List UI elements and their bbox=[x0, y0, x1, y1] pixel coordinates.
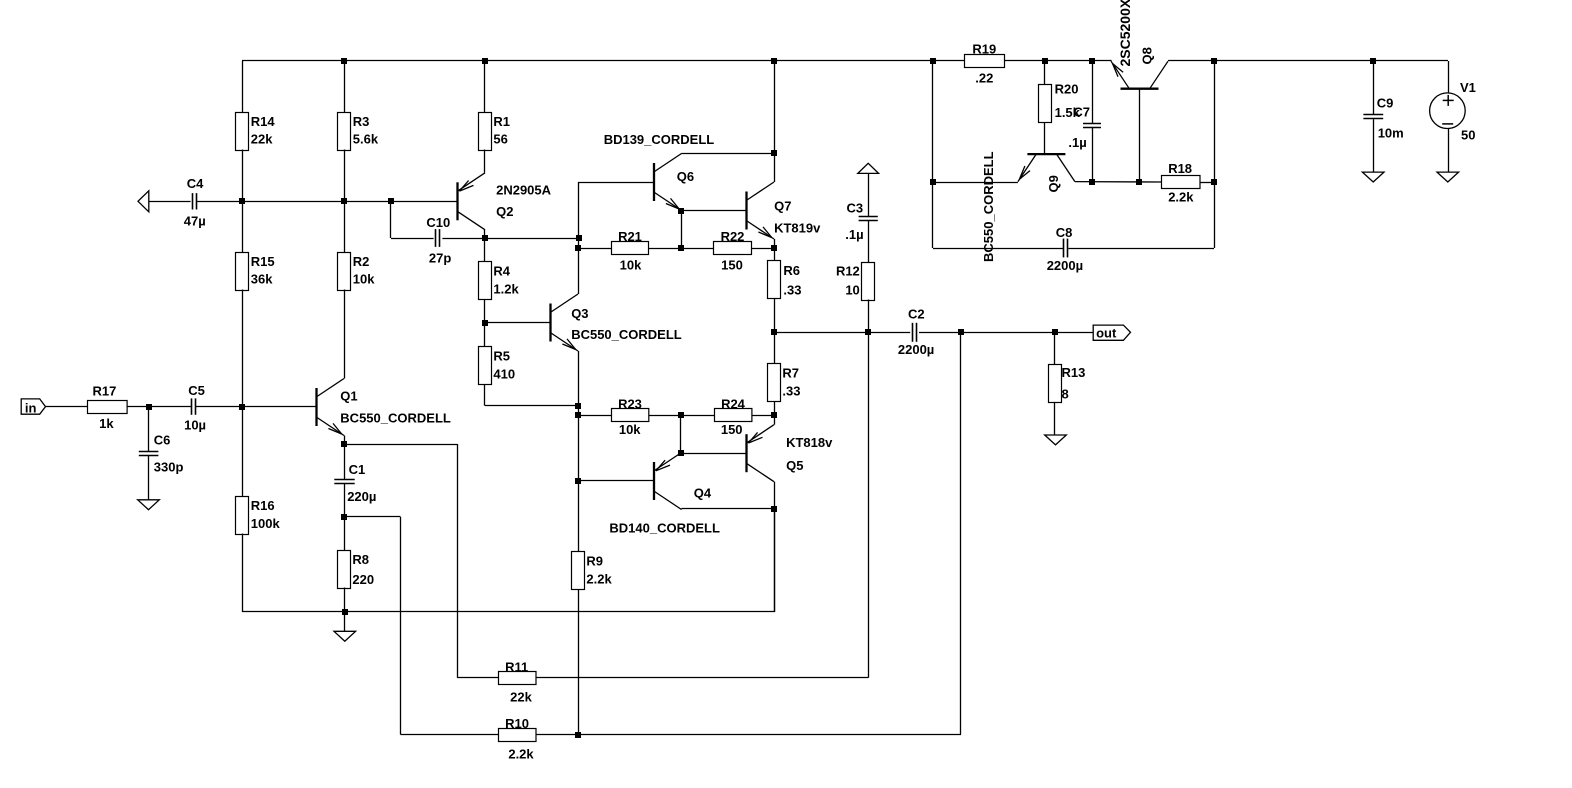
svg-text:C9: C9 bbox=[1377, 96, 1394, 111]
svg-text:in: in bbox=[25, 400, 37, 415]
transistor Q8 bbox=[1111, 61, 1168, 88]
resistor R6 bbox=[768, 261, 781, 299]
wire R13 to ground bbox=[1054, 402, 1056, 435]
port flag in bbox=[21, 399, 45, 414]
svg-text:R12: R12 bbox=[836, 263, 860, 278]
svg-text:R24: R24 bbox=[721, 397, 746, 412]
svg-text:out: out bbox=[1096, 326, 1117, 341]
wire Q5 base bbox=[681, 453, 747, 455]
svg-text:50: 50 bbox=[1461, 128, 1475, 143]
ground flag at C4 bbox=[138, 191, 149, 212]
svg-text:C4: C4 bbox=[187, 176, 204, 191]
resistor R14 bbox=[242, 61, 244, 112]
node R3/R2 junction bbox=[341, 198, 347, 204]
wire C1 to R8 bbox=[344, 484, 346, 517]
svg-text:Q2: Q2 bbox=[496, 204, 513, 219]
node R21/R22 junction bbox=[678, 245, 684, 251]
svg-text:R22: R22 bbox=[721, 229, 745, 244]
svg-text:.22: .22 bbox=[975, 71, 993, 86]
node C7 bottom junction bbox=[1089, 179, 1095, 185]
capacitor C4 bbox=[149, 201, 191, 203]
svg-text:10k: 10k bbox=[620, 258, 642, 273]
transistor Q4 bbox=[654, 453, 682, 510]
svg-text:10k: 10k bbox=[619, 422, 641, 437]
transistor Q3 bbox=[551, 294, 579, 351]
wire R8 to ground row bbox=[344, 588, 346, 612]
resistor R12 bbox=[862, 263, 875, 301]
svg-text:Q6: Q6 bbox=[677, 169, 694, 184]
resistor R9 bbox=[572, 552, 585, 590]
ground symbol below C9 bbox=[1362, 172, 1384, 182]
svg-text:2N2905A: 2N2905A bbox=[496, 182, 552, 197]
svg-text:2.2k: 2.2k bbox=[1168, 189, 1194, 204]
wire R17 to C6 node bbox=[127, 406, 148, 408]
svg-text:Q4: Q4 bbox=[694, 485, 712, 500]
node rail junction at C9 bbox=[1370, 58, 1376, 64]
svg-text:2200µ: 2200µ bbox=[1047, 258, 1083, 273]
svg-text:R15: R15 bbox=[251, 254, 275, 269]
node output row left junction bbox=[771, 329, 777, 335]
ground symbol below R13 bbox=[1045, 435, 1067, 445]
wire C5 node to Q1 base bbox=[242, 406, 317, 408]
wire C10 tap down bbox=[390, 201, 392, 238]
wire V1 to ground bbox=[1448, 129, 1450, 173]
resistor R11 bbox=[457, 677, 499, 679]
wire Q9 collector row to R18 bbox=[1075, 181, 1161, 183]
wire top supply rail right of R19 to Q8 emitter bbox=[1004, 60, 1111, 62]
svg-text:R5: R5 bbox=[493, 349, 510, 364]
wire Q3 emitter down bbox=[578, 351, 580, 406]
svg-text:BC550_CORDELL: BC550_CORDELL bbox=[571, 327, 682, 342]
svg-text:C8: C8 bbox=[1056, 225, 1073, 240]
resistor R23 bbox=[578, 415, 611, 417]
svg-text:2.2k: 2.2k bbox=[586, 571, 612, 586]
wire C10 node to Q3 collector line bbox=[485, 238, 579, 240]
wire R2 to Q1 collector bbox=[344, 290, 346, 379]
svg-text:R20: R20 bbox=[1055, 82, 1079, 97]
svg-text:R18: R18 bbox=[1168, 161, 1192, 176]
svg-text:R10: R10 bbox=[505, 716, 529, 731]
node C10 tap junction bbox=[388, 198, 394, 204]
svg-text:10µ: 10µ bbox=[184, 417, 206, 432]
svg-text:R13: R13 bbox=[1062, 365, 1086, 380]
svg-text:1.2k: 1.2k bbox=[493, 282, 519, 297]
ground symbol below C6 bbox=[138, 500, 160, 510]
transistor Q9 bbox=[1018, 154, 1075, 182]
resistor R3 bbox=[344, 61, 346, 112]
svg-text:330p: 330p bbox=[154, 460, 184, 475]
resistor R5 bbox=[484, 323, 486, 347]
node rail junction at C7 bbox=[1089, 58, 1095, 64]
svg-text:Q8: Q8 bbox=[1140, 47, 1155, 64]
capacitor C8 bbox=[933, 248, 1064, 250]
svg-text:Q7: Q7 bbox=[774, 199, 791, 214]
wire C1 node to R10 drop bbox=[344, 516, 401, 518]
wire C4 row to R3/R2 node bbox=[242, 201, 344, 203]
ground flag above C3 bbox=[858, 163, 879, 173]
wire Q4 base bbox=[578, 480, 654, 482]
svg-text:.1µ: .1µ bbox=[1068, 135, 1086, 150]
voltage source V1 bbox=[1448, 61, 1450, 93]
resistor R8 bbox=[344, 517, 346, 550]
svg-text:Q9: Q9 bbox=[1046, 175, 1061, 192]
transistor Q5 bbox=[747, 425, 775, 482]
svg-text:220: 220 bbox=[352, 572, 374, 587]
node Q4 collector / Q5 collector junction bbox=[771, 506, 777, 512]
transistor Q6 bbox=[654, 154, 682, 211]
svg-text:2.2k: 2.2k bbox=[508, 746, 534, 761]
node rail junction at R20 bbox=[1042, 58, 1048, 64]
svg-text:C3: C3 bbox=[847, 201, 864, 216]
ground row wire bbox=[242, 611, 775, 613]
transistor Q7 bbox=[747, 182, 775, 239]
node C5/R15/R16 junction bbox=[239, 404, 245, 410]
wire Q7 emitter down to R6 bbox=[774, 239, 776, 261]
svg-text:Q1: Q1 bbox=[340, 388, 357, 403]
wire Q8 base down bbox=[1139, 89, 1141, 182]
ground symbol below R8 bbox=[344, 612, 346, 631]
node rail junction at Q9 column bbox=[930, 58, 936, 64]
wire R1 to Q2 emitter bbox=[484, 150, 486, 173]
svg-text:R21: R21 bbox=[618, 229, 642, 244]
wire R11 to output column bbox=[537, 677, 869, 679]
node Q1 emitter junction bbox=[341, 441, 347, 447]
wire right column down to C8 row bbox=[1214, 61, 1216, 248]
svg-text:C10: C10 bbox=[426, 215, 450, 230]
node R24 right junction bbox=[771, 412, 777, 418]
node R17/C6 junction bbox=[146, 404, 152, 410]
svg-text:8: 8 bbox=[1062, 387, 1069, 402]
node R23/R24 junction bbox=[678, 412, 684, 418]
svg-text:KT818v: KT818v bbox=[786, 435, 833, 450]
svg-text:R17: R17 bbox=[93, 384, 117, 399]
svg-text:150: 150 bbox=[721, 258, 743, 273]
wire R5 bottom to Q3 emitter row bbox=[484, 384, 486, 406]
node ground row junction bbox=[342, 609, 348, 615]
ground symbol below V1 bbox=[1437, 172, 1459, 182]
svg-text:220µ: 220µ bbox=[347, 489, 376, 504]
svg-text:27p: 27p bbox=[429, 251, 451, 266]
node C4/R14/R15 junction bbox=[239, 198, 245, 204]
svg-text:10: 10 bbox=[845, 283, 859, 298]
capacitor C9 bbox=[1373, 61, 1375, 115]
svg-text:22k: 22k bbox=[510, 690, 532, 705]
capacitor C3 bbox=[868, 173, 870, 216]
resistor R7 bbox=[774, 332, 776, 363]
resistor R22 bbox=[649, 248, 714, 250]
node Q5 base junction bbox=[678, 450, 684, 456]
svg-text:410: 410 bbox=[493, 367, 515, 382]
node Q2 collector / C10 / R4 junction bbox=[482, 235, 488, 241]
output row wire bbox=[774, 332, 910, 334]
wire C6 to ground bbox=[148, 456, 150, 500]
node Q6 collector junction bbox=[771, 150, 777, 156]
svg-text:.33: .33 bbox=[782, 384, 800, 399]
node Q4 base junction bbox=[575, 478, 581, 484]
port flag out bbox=[1093, 325, 1130, 340]
svg-text:BD139_CORDELL: BD139_CORDELL bbox=[604, 132, 715, 147]
svg-text:C5: C5 bbox=[188, 383, 205, 398]
svg-text:R14: R14 bbox=[251, 114, 276, 129]
wire top supply rail from Q8 collector to V1 bbox=[1168, 60, 1448, 62]
wire R10 to output column bbox=[537, 734, 962, 736]
wire Q2 collector down to C10 node bbox=[484, 230, 486, 239]
node Q3 emitter junction bbox=[575, 403, 581, 409]
node C2 right junction bbox=[958, 329, 964, 335]
svg-text:R16: R16 bbox=[251, 498, 275, 513]
wire C9 to ground bbox=[1373, 119, 1375, 172]
wire Q9 emitter row bbox=[933, 182, 1018, 184]
svg-text:KT819v: KT819v bbox=[774, 221, 821, 236]
node R22 right junction bbox=[771, 245, 777, 251]
svg-text:22k: 22k bbox=[251, 132, 273, 147]
resistor R4 bbox=[484, 238, 486, 262]
wire Q6 emitter to Q7 base bbox=[682, 210, 747, 212]
capacitor C10 bbox=[391, 238, 434, 240]
resistor R21 bbox=[578, 248, 612, 250]
svg-text:C2: C2 bbox=[908, 307, 925, 322]
resistor R18 bbox=[1162, 176, 1201, 189]
wire Q1 emitter node to R11 drop bbox=[344, 444, 457, 446]
svg-text:.33: .33 bbox=[783, 283, 801, 298]
node Q9 emitter row junction bbox=[930, 179, 936, 185]
resistor R19 bbox=[965, 55, 1005, 68]
svg-text:Q5: Q5 bbox=[786, 458, 803, 473]
wire top supply rail left of R19 bbox=[242, 60, 964, 62]
wire Q9 column bbox=[932, 61, 934, 248]
node rail junction at R1 bbox=[482, 58, 488, 64]
capacitor C1 bbox=[334, 479, 354, 481]
node rail junction at R3 bbox=[341, 58, 347, 64]
wire R12 to output row bbox=[868, 300, 870, 333]
svg-text:47µ: 47µ bbox=[184, 214, 206, 229]
resistor R13 bbox=[1054, 332, 1056, 364]
svg-text:C7: C7 bbox=[1073, 104, 1090, 119]
resistor R24 bbox=[649, 415, 715, 417]
wire C3 to R12 bbox=[868, 221, 870, 262]
node R23 row junction bbox=[575, 412, 581, 418]
svg-text:10m: 10m bbox=[1378, 126, 1404, 141]
resistor R2 bbox=[338, 253, 351, 291]
node R4/R5/Q3 base junction bbox=[482, 320, 488, 326]
svg-text:1k: 1k bbox=[99, 416, 114, 431]
svg-text:BC550_CORDELL: BC550_CORDELL bbox=[981, 151, 996, 262]
capacitor C6 bbox=[148, 407, 150, 452]
wire Q4 emitter up to Q5 base node bbox=[680, 452, 683, 455]
wire down to R9 bbox=[578, 481, 580, 552]
svg-text:Q3: Q3 bbox=[571, 306, 588, 321]
wire Q3 collector up to Q6 base bbox=[578, 182, 580, 294]
svg-text:V1: V1 bbox=[1460, 80, 1476, 95]
wire Q3 emitter node down to Q4 base bbox=[578, 406, 580, 481]
capacitor C7 bbox=[1092, 61, 1094, 123]
node rail junction right of Q8 bbox=[1211, 58, 1217, 64]
wire Q1 emitter down bbox=[344, 436, 346, 480]
svg-text:2200µ: 2200µ bbox=[898, 342, 934, 357]
capacitor C5 bbox=[149, 406, 192, 408]
resistor R20 bbox=[1044, 61, 1046, 85]
resistor R15 bbox=[236, 253, 249, 291]
svg-text:150: 150 bbox=[721, 422, 743, 437]
wire R6 to output row bbox=[774, 299, 776, 333]
svg-text:C6: C6 bbox=[154, 433, 171, 448]
svg-text:R1: R1 bbox=[493, 114, 510, 129]
svg-text:BD140_CORDELL: BD140_CORDELL bbox=[609, 521, 720, 536]
wire Q4 collector row bbox=[681, 508, 683, 511]
svg-text:R4: R4 bbox=[493, 264, 510, 279]
node Q8 base junction bbox=[1136, 179, 1142, 185]
wire R3 to R2 bbox=[344, 150, 346, 253]
svg-text:C1: C1 bbox=[349, 462, 366, 477]
resistor R17 bbox=[46, 406, 88, 408]
wire R20 to Q9 base bbox=[1044, 122, 1046, 153]
svg-text:R2: R2 bbox=[353, 254, 370, 269]
svg-text:R6: R6 bbox=[783, 263, 800, 278]
resistor R10 bbox=[401, 734, 500, 736]
svg-text:BC550_CORDELL: BC550_CORDELL bbox=[340, 411, 451, 426]
wire R16 to ground row bbox=[242, 534, 244, 612]
svg-text:R11: R11 bbox=[505, 659, 528, 674]
svg-text:R3: R3 bbox=[353, 114, 370, 129]
wire R7 to R24 node bbox=[774, 401, 776, 415]
capacitor C2 bbox=[912, 323, 914, 342]
svg-text:R7: R7 bbox=[782, 366, 799, 381]
wire Q6 emitter down to R21/R22 row bbox=[681, 211, 683, 249]
wire base row to Q2 bbox=[344, 201, 458, 203]
svg-text:R8: R8 bbox=[352, 552, 369, 567]
node C2/R12 junction bbox=[865, 329, 871, 335]
wire Q3 base bbox=[485, 322, 551, 324]
transistor Q2 bbox=[458, 173, 486, 230]
svg-text:R19: R19 bbox=[972, 41, 996, 56]
wire R15 to input row bbox=[242, 290, 244, 497]
resistor R1 bbox=[484, 61, 486, 112]
node wire A junction bbox=[576, 235, 582, 241]
node R18 right junction bbox=[1211, 179, 1217, 185]
node R9/R10 junction bbox=[575, 732, 581, 738]
svg-text:R9: R9 bbox=[586, 554, 603, 569]
node C1/R8 junction bbox=[341, 514, 347, 520]
svg-text:R23: R23 bbox=[618, 397, 642, 412]
wire R9 to feedback node bbox=[578, 589, 580, 735]
node R13 junction bbox=[1052, 329, 1058, 335]
wire Q5 emitter up to R24 node bbox=[774, 416, 776, 425]
transistor Q1 bbox=[317, 379, 345, 436]
svg-text:.1µ: .1µ bbox=[845, 227, 863, 242]
svg-text:56: 56 bbox=[493, 132, 507, 147]
wire R4 to Q3 base node bbox=[484, 299, 486, 322]
wire Q7 collector up to rail bbox=[774, 61, 776, 182]
svg-text:10k: 10k bbox=[353, 272, 375, 287]
node R21 left junction bbox=[575, 245, 581, 251]
wire R23/R24 node down to Q5 base bbox=[680, 416, 682, 454]
svg-text:5.6k: 5.6k bbox=[353, 132, 379, 147]
svg-text:36k: 36k bbox=[251, 272, 273, 287]
svg-text:2SC5200X: 2SC5200X bbox=[1117, 0, 1133, 67]
resistor R16 bbox=[236, 497, 249, 535]
node Q6 emitter junction bbox=[678, 208, 684, 214]
svg-text:100k: 100k bbox=[251, 516, 281, 531]
wire Q6 collector to Q7 collector line bbox=[682, 153, 775, 155]
wire Q5 collector down to ground row bbox=[774, 482, 776, 509]
node rail junction at Q7 bbox=[771, 58, 777, 64]
wire R14 to R15 bbox=[242, 150, 244, 253]
